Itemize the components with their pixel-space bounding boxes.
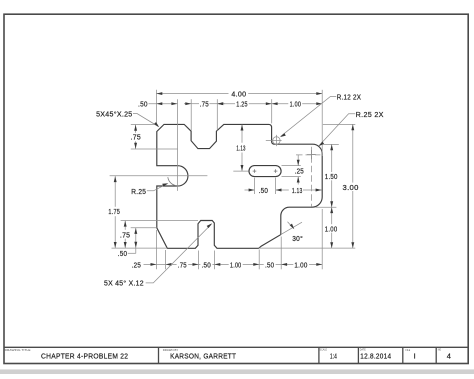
- dim 1.25 top: [217, 103, 235, 105]
- svg-text:1.00: 1.00: [294, 262, 307, 270]
- slot ext lines down: [254, 178, 256, 194]
- svg-text:4: 4: [447, 352, 451, 361]
- title block divider: drawn-by: [158, 347, 160, 363]
- svg-text:R.12 2X: R.12 2X: [337, 93, 362, 101]
- dim .75 lower-left: [124, 221, 126, 230]
- dim .75 upper-left: [131, 124, 155, 126]
- dim .50 top: [149, 103, 178, 105]
- bottom edge ext left: [112, 247, 168, 249]
- ext line tab-top extended left: [121, 220, 198, 222]
- svg-text:1.50: 1.50: [325, 173, 338, 181]
- bottom grey bar: [0, 369, 474, 374]
- title block divider: no: [435, 347, 437, 363]
- svg-text:.50: .50: [138, 101, 148, 109]
- ext lines row2: [190, 99, 192, 130]
- svg-text:DRAWING TITLE: DRAWING TITLE: [5, 348, 31, 352]
- title block top line: [4, 346, 468, 348]
- bottom chain ext lines: [155, 230, 157, 269]
- dim 3.00 right: [323, 123, 355, 125]
- hook vertical centerline: [177, 99, 179, 191]
- svg-text:I: I: [414, 352, 416, 361]
- svg-text:.50: .50: [265, 262, 274, 270]
- title block divider: date: [357, 347, 359, 363]
- dim .50 slot: [245, 189, 255, 191]
- svg-text:NO: NO: [438, 348, 442, 352]
- svg-text:.25: .25: [295, 168, 304, 176]
- svg-text:.75: .75: [200, 101, 209, 109]
- fillet centerline cross: [307, 154, 316, 156]
- hook horizontal centerline: [110, 175, 208, 177]
- bottom chain dim: [144, 263, 177, 265]
- svg-text:1.00: 1.00: [290, 101, 302, 109]
- svg-text:FILE: FILE: [406, 348, 411, 352]
- ext line slope-top extended left: [131, 227, 157, 229]
- svg-text:30°: 30°: [292, 235, 303, 243]
- dim 4.00 extension left: [155, 90, 157, 124]
- dim 1.00 right: [331, 207, 333, 224]
- svg-text:1.25: 1.25: [236, 101, 247, 109]
- svg-text:3.00: 3.00: [343, 184, 359, 192]
- title block divider: scale: [318, 347, 320, 363]
- dim 4.00 extension right (long, down to fillet): [321, 90, 323, 156]
- svg-text:SCALE: SCALE: [320, 348, 327, 352]
- dim .75 top: [184, 103, 199, 105]
- svg-text:.75: .75: [120, 231, 130, 239]
- svg-text:R.25: R.25: [131, 188, 146, 196]
- svg-text:.50: .50: [259, 187, 269, 195]
- dim 1.13 top-center: [241, 125, 243, 143]
- svg-text:.75: .75: [131, 134, 141, 142]
- svg-text:12.8.2014: 12.8.2014: [360, 351, 391, 360]
- svg-text:4.00: 4.00: [231, 91, 246, 99]
- svg-text:1.00: 1.00: [325, 226, 338, 234]
- dim 1.00 top: [272, 103, 289, 105]
- bottom edge ext right: [259, 247, 356, 249]
- obround slot: [249, 166, 281, 177]
- svg-text:CHAPTER 4-PROBLEM 22: CHAPTER 4-PROBLEM 22: [41, 351, 128, 360]
- 30 degree slope extension + label: [281, 222, 302, 234]
- dim 1.75 left: [114, 176, 116, 207]
- dim .50 lower-left: [135, 228, 137, 253]
- title block divider: file: [402, 347, 404, 363]
- svg-text:KARSON, GARRETT: KARSON, GARRETT: [170, 351, 236, 360]
- svg-text:1.13: 1.13: [236, 144, 245, 152]
- svg-text:5X 45° X.12: 5X 45° X.12: [104, 279, 144, 287]
- svg-text:5X45°X.25: 5X45°X.25: [96, 110, 132, 118]
- svg-text:.25: .25: [132, 262, 141, 270]
- dim .25 slot height: [282, 165, 301, 167]
- dim 1.13 slot-to-edge: [303, 189, 322, 191]
- slot center marks: [253, 170, 257, 172]
- hook thin arc (lower-left quadrant of R.25 slot end): [168, 177, 181, 186]
- svg-text:1:4: 1:4: [330, 351, 337, 360]
- dim 1.50 right: [323, 143, 339, 145]
- part outline: [157, 124, 322, 248]
- dim 4.00: [156, 93, 228, 95]
- R.12 fillet center marker: [273, 137, 280, 144]
- svg-text:1.75: 1.75: [108, 208, 120, 216]
- svg-text:.75: .75: [178, 262, 187, 270]
- svg-text:1.00: 1.00: [230, 262, 241, 270]
- svg-text:R.25 2X: R.25 2X: [356, 111, 384, 119]
- svg-text:.50: .50: [118, 250, 128, 258]
- svg-text:.50: .50: [202, 262, 212, 270]
- svg-text:1.13: 1.13: [292, 187, 303, 195]
